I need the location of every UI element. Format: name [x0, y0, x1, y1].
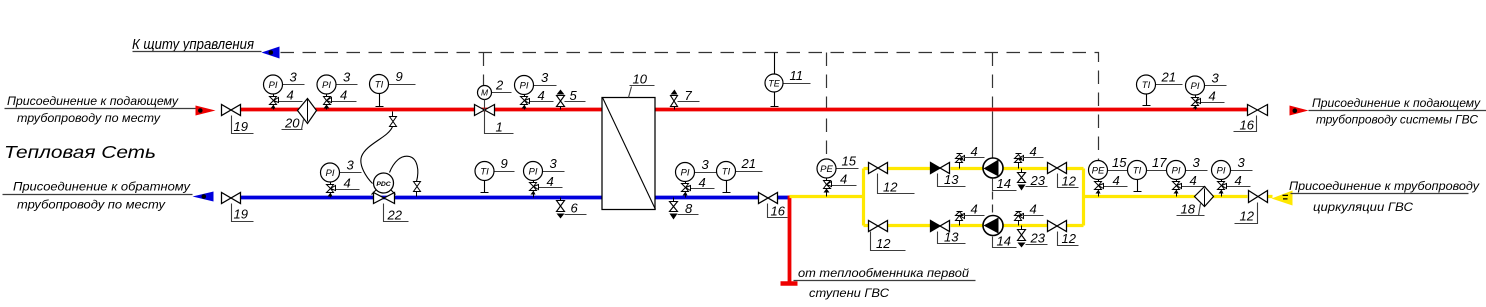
regulator valve 22 with PDC head — [372, 173, 409, 223]
instrument TI (484.5,171) tag 9 on return — [475, 156, 515, 192]
svg-text:трубопроводу по месту: трубопроводу по месту — [17, 197, 166, 211]
svg-text:19: 19 — [234, 119, 248, 134]
svg-text:8: 8 — [685, 201, 693, 216]
drain valve 8 — [670, 198, 699, 220]
svg-text:3: 3 — [1212, 71, 1220, 86]
valve 16 on DHW supply — [1234, 105, 1268, 133]
wire: dashed drop to PE15 left — [826, 53, 828, 160]
svg-text:TI: TI — [722, 167, 731, 178]
svg-text:3: 3 — [1238, 155, 1246, 170]
label: от теплообменника первой ступени ГВС — [794, 266, 976, 300]
svg-text:циркуляции ГВС: циркуляции ГВС — [1313, 200, 1413, 214]
svg-text:14: 14 — [997, 234, 1011, 249]
instrument TI (1137,170) tag 17 — [1128, 155, 1174, 191]
svg-text:3: 3 — [290, 70, 298, 85]
svg-text:3: 3 — [1193, 155, 1201, 170]
pump 14 lower — [983, 216, 1017, 249]
svg-text:4: 4 — [1235, 173, 1242, 188]
wire: dashed control bus to panel — [281, 53, 1099, 161]
wire: yellow lower pump branch — [864, 224, 1084, 227]
svg-text:12: 12 — [876, 236, 891, 251]
svg-text:TI: TI — [1142, 80, 1151, 91]
svg-text:TI: TI — [480, 167, 489, 178]
svg-text:TI: TI — [1133, 166, 1142, 177]
svg-text:12: 12 — [1062, 231, 1077, 246]
svg-text:4: 4 — [340, 88, 347, 103]
instrument PI (1221,170) tags 3/4 — [1212, 155, 1253, 196]
air vent 5 — [557, 88, 586, 110]
impulse tap valve on red pipe — [390, 112, 397, 127]
svg-text:PI: PI — [520, 81, 529, 92]
arrow: to DHW supply (red, with dot) — [1290, 106, 1309, 116]
svg-text:PI: PI — [1172, 166, 1181, 177]
svg-text:4: 4 — [971, 202, 978, 217]
svg-text:3: 3 — [541, 70, 549, 85]
arrow: return to network (blue, with dot) — [193, 192, 214, 202]
wire: red drop pipe from first stage — [788, 196, 792, 284]
svg-text:3: 3 — [343, 70, 351, 85]
svg-text:10: 10 — [633, 72, 648, 87]
instrument TI (1146,84.5) tag 21 on DHW supply — [1137, 70, 1183, 106]
svg-text:PI: PI — [1191, 81, 1200, 92]
wire: red supply pipe left run — [241, 108, 603, 112]
label: Присоединение к подающему трубопроводу по месту — [5, 94, 196, 125]
svg-text:4: 4 — [547, 174, 554, 189]
svg-text:трубопроводу по месту: трубопроводу по месту — [17, 111, 161, 125]
air vent 7 — [671, 88, 700, 110]
filter 18 — [1177, 187, 1214, 217]
svg-text:4: 4 — [344, 176, 351, 191]
instrument PI (273,84.5) tags 3/4 — [264, 70, 305, 110]
svg-text:4: 4 — [840, 172, 847, 187]
wire: yellow merge riser — [1082, 169, 1085, 226]
check valve 13 lower — [931, 221, 966, 245]
valve 12 upper-left — [869, 163, 915, 195]
instrument PE (826.5,168.5) tags 15/4 — [817, 154, 859, 197]
svg-text:15: 15 — [842, 154, 857, 169]
svg-text:PI: PI — [269, 80, 278, 91]
svg-text:4: 4 — [971, 144, 978, 159]
svg-text:16: 16 — [1240, 118, 1255, 133]
svg-text:20: 20 — [284, 116, 300, 131]
svg-text:Присоединение к трубопроводу: Присоединение к трубопроводу — [1289, 179, 1480, 193]
svg-text:9: 9 — [501, 156, 508, 171]
svg-text:PE: PE — [820, 164, 833, 175]
drain valve 6 — [557, 198, 587, 219]
pump 14 upper — [983, 158, 1017, 191]
svg-text:4: 4 — [1190, 173, 1197, 188]
instrument PI (524,85) tags 3/4 — [515, 70, 557, 109]
svg-text:TE: TE — [768, 79, 780, 89]
gauge cock 4 before lower pump — [956, 202, 985, 226]
svg-text:13: 13 — [944, 230, 959, 245]
valve 16 on return — [759, 193, 788, 219]
svg-text:TI: TI — [375, 80, 384, 91]
valve 12 upper-right — [1048, 163, 1079, 189]
svg-text:К щиту управления: К щиту управления — [132, 37, 254, 53]
wire: blue return pipe stub after valve 16 — [778, 196, 790, 200]
instrument TE (774,83) tag 11 — [765, 68, 811, 106]
wire: solid drop to TE11 — [774, 53, 776, 75]
instrument TI (379,84) tag 9 — [370, 69, 416, 106]
instrument PI (1195,85.5) tags 3/4 on DHW supply — [1186, 71, 1227, 110]
gauge cock 4 before upper pump — [956, 144, 985, 169]
svg-text:2: 2 — [495, 78, 504, 93]
impulse line red to PDC — [361, 127, 393, 184]
svg-text:Присоединение к подающему: Присоединение к подающему — [7, 94, 179, 108]
impulse line blue to PDC — [390, 156, 418, 181]
wire: blue return pipe left run — [241, 196, 603, 200]
svg-text:Присоединение к подающему: Присоединение к подающему — [1312, 96, 1481, 110]
wire: dashed drop to motor valve U1 — [483, 53, 485, 86]
svg-text:4: 4 — [1113, 173, 1120, 188]
svg-text:Присоединение к обратному: Присоединение к обратному — [13, 179, 191, 193]
svg-text:11: 11 — [790, 68, 804, 83]
svg-text:PI: PI — [1217, 166, 1226, 177]
valve 12 lower-right — [1048, 221, 1079, 247]
svg-text:4: 4 — [1209, 89, 1216, 104]
impulse tap valve on blue pipe — [414, 182, 421, 197]
instrument PI (326.5,84.5) tags 3/4 — [317, 70, 358, 110]
wire: yellow split riser — [862, 169, 865, 226]
wire: blue return pipe right run — [656, 196, 759, 200]
svg-text:15: 15 — [1112, 155, 1127, 170]
label: К щиту управления — [132, 37, 262, 53]
gauge cock 4 after lower pump — [1015, 202, 1044, 226]
valve 19 return — [222, 193, 254, 222]
svg-text:5: 5 — [570, 88, 578, 103]
svg-text:PE: PE — [1092, 166, 1105, 177]
svg-text:21: 21 — [1161, 70, 1176, 85]
svg-text:9: 9 — [396, 69, 403, 84]
svg-text:22: 22 — [387, 208, 403, 223]
instrument PE (1098,170) tags 15/4 — [1089, 155, 1130, 196]
svg-text:Тепловая Сеть: Тепловая Сеть — [4, 142, 156, 162]
label: Присоединение к трубопроводу циркуляции ГВС — [1289, 179, 1480, 214]
svg-text:1: 1 — [496, 120, 503, 135]
svg-text:4: 4 — [287, 88, 294, 103]
label: Тепловая Сеть — [4, 142, 156, 162]
svg-text:трубопроводу системы ГВС: трубопроводу системы ГВС — [1316, 112, 1478, 126]
valve 12 far-right — [1235, 191, 1268, 224]
svg-text:6: 6 — [571, 201, 579, 216]
svg-text:ступени ГВС: ступени ГВС — [809, 286, 889, 300]
strainer 20 — [282, 99, 317, 131]
svg-text:19: 19 — [234, 207, 248, 222]
svg-text:16: 16 — [771, 204, 786, 219]
svg-text:PDC: PDC — [376, 181, 390, 188]
wire: red supply pipe right run — [656, 108, 1248, 112]
svg-text:PI: PI — [681, 168, 690, 179]
svg-text:14: 14 — [997, 176, 1011, 191]
wire: dashed drop to pumps — [992, 53, 994, 108]
svg-text:3: 3 — [702, 157, 710, 172]
instrument PI (533,171) tags 3/4 on return — [524, 156, 565, 197]
svg-text:от теплообменника первой: от теплообменника первой — [798, 266, 969, 280]
heat exchanger 10 — [602, 72, 656, 210]
svg-text:12: 12 — [1240, 209, 1255, 224]
drain valve 23 lower — [1018, 226, 1048, 248]
valve 19 supply — [222, 105, 254, 135]
wire: yellow outlet run — [1084, 195, 1273, 198]
svg-text:3: 3 — [347, 158, 355, 173]
arrow: supply from network (red, with dot) — [196, 106, 216, 116]
svg-text:7: 7 — [685, 88, 693, 103]
svg-text:PI: PI — [529, 167, 538, 178]
svg-text:23: 23 — [1030, 231, 1046, 246]
svg-text:M: M — [481, 88, 489, 98]
gauge cock 4 after upper pump — [1015, 144, 1044, 169]
instrument PI (330,172.5) tags 3/4 on return — [321, 158, 362, 198]
svg-text:21: 21 — [741, 156, 756, 171]
svg-text:4: 4 — [1030, 202, 1037, 217]
instrument TI (726,171) tag 21 — [717, 156, 763, 192]
svg-text:PI: PI — [322, 80, 331, 91]
wire: red drop terminus bar — [781, 281, 798, 286]
svg-text:4: 4 — [699, 175, 706, 190]
motor valve 1: body — [475, 100, 514, 135]
motor valve U1: M head — [478, 78, 512, 100]
arrow: DHW circulation inlet (yellow) — [1272, 191, 1293, 206]
valve 12 lower-left — [869, 221, 906, 252]
svg-text:13: 13 — [944, 172, 959, 187]
svg-text:4: 4 — [1030, 144, 1037, 159]
svg-text:12: 12 — [883, 180, 898, 195]
svg-text:18: 18 — [1181, 202, 1196, 217]
wire: yellow circulation header — [790, 195, 864, 198]
wire: yellow upper pump branch — [864, 167, 1084, 170]
label: Присоединение к обратному трубопроводу по месту — [3, 179, 193, 211]
svg-text:12: 12 — [1062, 174, 1077, 189]
label: Присоединение к подающему трубопроводу системы ГВС — [1309, 96, 1486, 127]
svg-text:23: 23 — [1030, 173, 1046, 188]
svg-text:4: 4 — [538, 88, 545, 103]
svg-text:PI: PI — [326, 168, 335, 179]
instrument PI (685,172) tags 3/4 after HX — [676, 157, 717, 197]
instrument PI (1176,170) tags 3/4 — [1167, 155, 1208, 196]
svg-text:3: 3 — [550, 156, 558, 171]
check valve 13 upper — [931, 163, 966, 188]
wire: dashed link between pumps — [992, 192, 994, 216]
arrow: to control panel (blue, with dot) — [262, 47, 280, 59]
drain valve 23 upper — [1018, 169, 1048, 191]
svg-text:17: 17 — [1152, 155, 1167, 170]
